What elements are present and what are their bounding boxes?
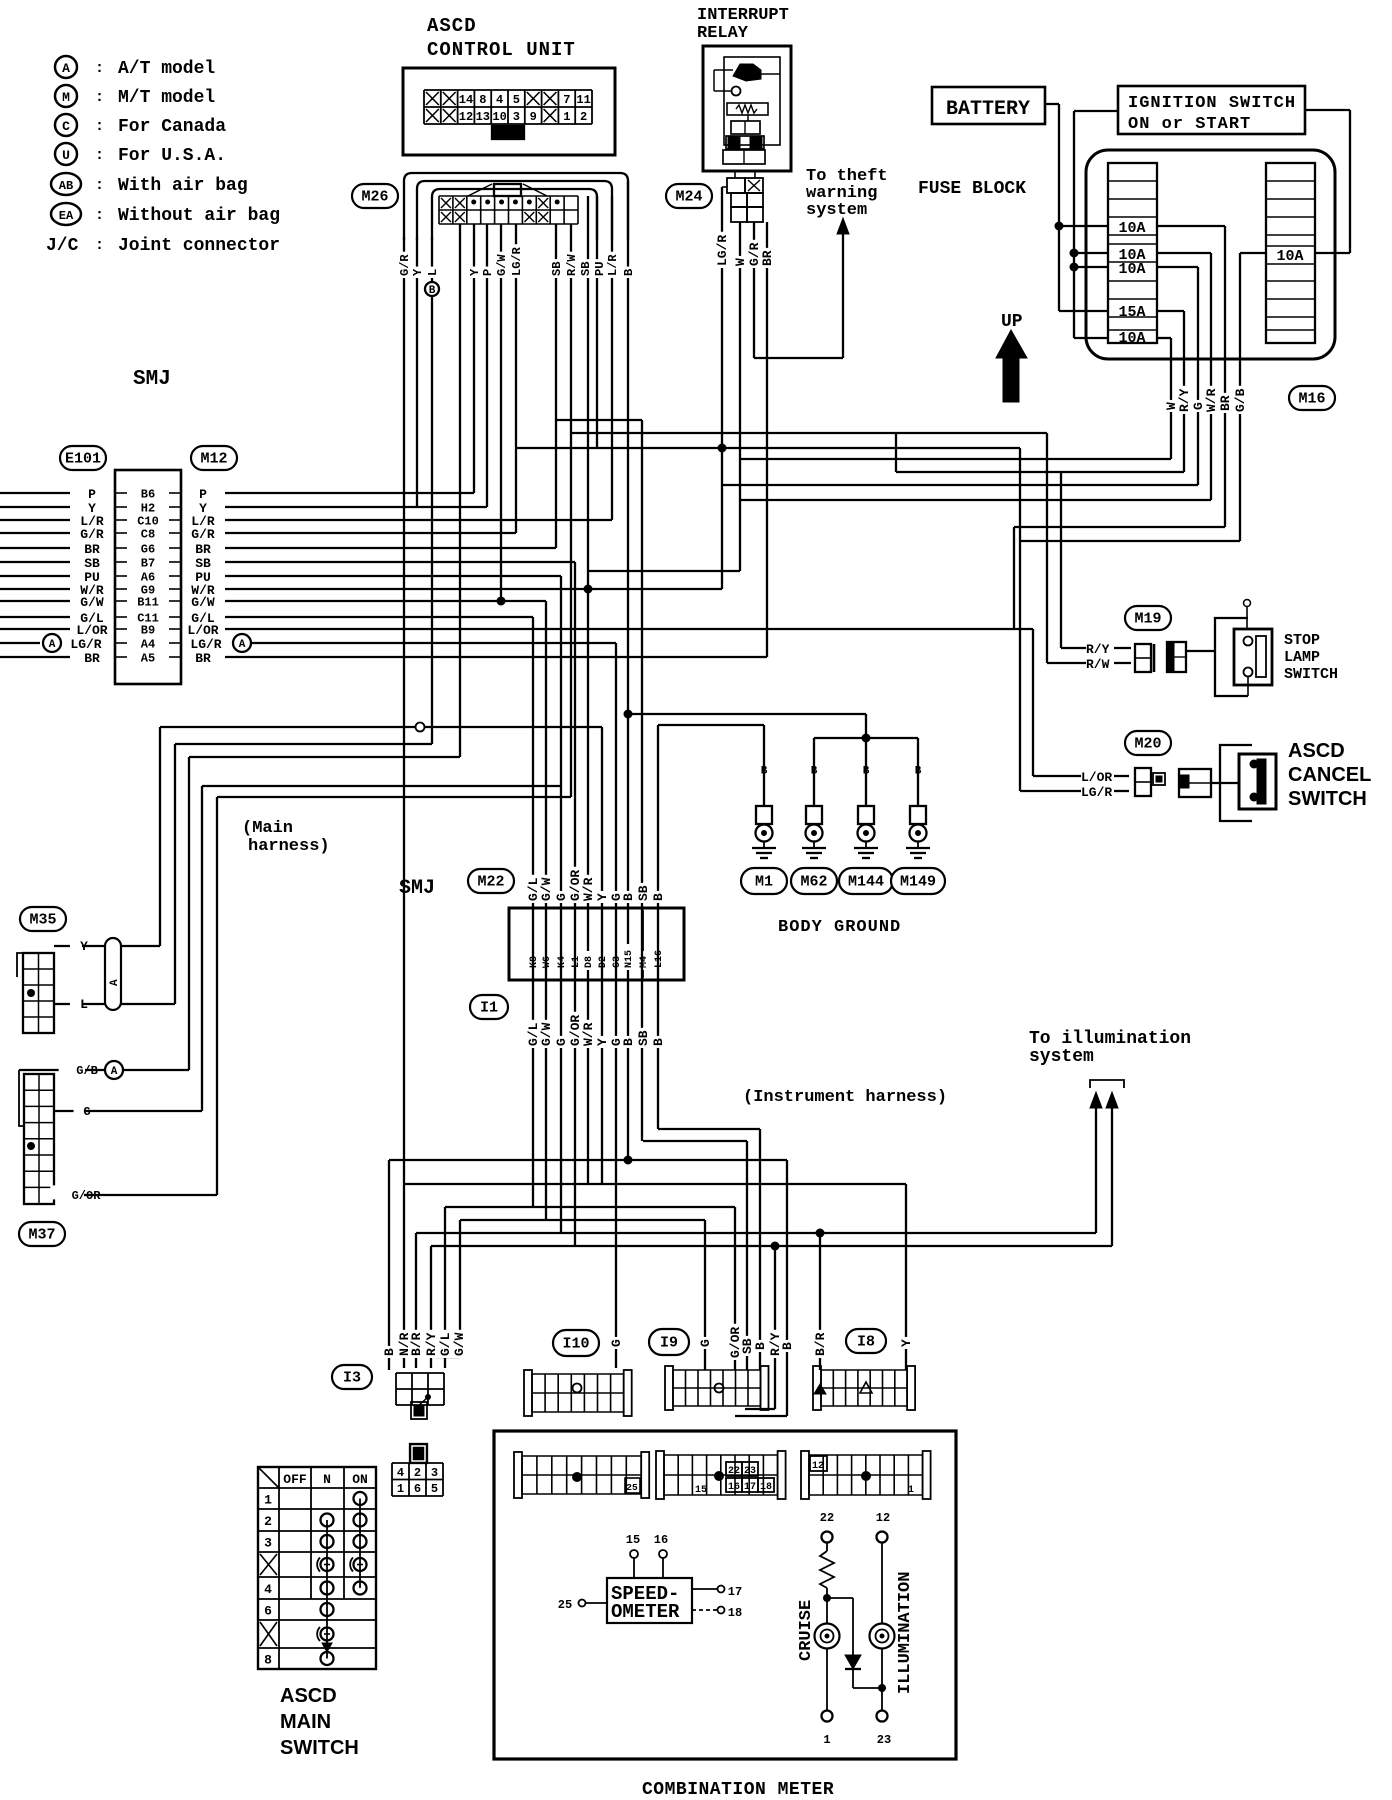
svg-text:E101: E101	[65, 451, 101, 468]
svg-text:M144: M144	[848, 874, 884, 891]
svg-text:Without air bag: Without air bag	[118, 206, 280, 226]
svg-text:W/R: W/R	[581, 1022, 596, 1046]
svg-text:L/OR: L/OR	[1081, 770, 1112, 785]
svg-text:2: 2	[264, 1514, 272, 1529]
M37 G/B row	[19, 1069, 189, 1071]
svg-text:B: B	[863, 766, 870, 778]
svg-text:SWITCH: SWITCH	[1284, 666, 1338, 683]
I3 connector grid	[395, 1373, 397, 1405]
svg-text:harness): harness)	[248, 837, 330, 856]
svg-text:G: G	[698, 1339, 713, 1347]
ground M1	[763, 725, 765, 806]
svg-text:(Instrument harness): (Instrument harness)	[743, 1088, 947, 1107]
svg-text:B11: B11	[137, 596, 159, 610]
svg-text:M149: M149	[900, 874, 936, 891]
svg-text:R/W: R/W	[1086, 657, 1110, 672]
bus wire W/R fuse	[740, 499, 1211, 501]
I3 wire labels	[382, 1346, 396, 1358]
svg-text:P: P	[88, 487, 96, 502]
svg-text:For U.S.A.: For U.S.A.	[118, 146, 226, 166]
svg-text:N: N	[323, 1472, 331, 1487]
svg-text:K4: K4	[557, 956, 568, 968]
ASCD control unit box	[403, 68, 615, 155]
svg-text:3: 3	[431, 1466, 438, 1480]
A/T marker on G/B	[105, 1061, 123, 1079]
wire stub SB row left	[0, 561, 70, 563]
wire G pin3	[560, 576, 562, 1234]
COMBINATION METER box	[494, 1431, 956, 1759]
wire W5 G/OR horizontal	[217, 796, 571, 798]
svg-text::: :	[95, 207, 104, 224]
svg-text:1: 1	[397, 1482, 404, 1496]
wire battery to fuse feed	[1045, 103, 1059, 105]
svg-text:N15: N15	[624, 950, 635, 968]
svg-text:COMBINATION METER: COMBINATION METER	[642, 1780, 834, 1800]
svg-text:BR: BR	[84, 542, 100, 557]
wire W3 vertical to M37 G/B	[188, 757, 190, 1070]
svg-text:BR: BR	[1218, 395, 1233, 411]
svg-text:L16: L16	[654, 950, 665, 968]
ground M144	[865, 738, 867, 806]
wire ignition right feed	[1305, 109, 1350, 111]
wire M26 c2 to M37 G/B	[459, 224, 461, 757]
svg-text:system: system	[1029, 1047, 1094, 1067]
svg-text:I9: I9	[660, 1335, 678, 1352]
wire ground bus	[814, 737, 918, 739]
svg-text:G/W: G/W	[539, 877, 554, 901]
svg-text:SB: SB	[195, 556, 211, 571]
svg-text:1: 1	[823, 1733, 830, 1747]
svg-text:SMJ: SMJ	[133, 368, 171, 391]
SMJ M22 pin wires through box	[532, 910, 534, 978]
svg-text:10A: 10A	[1118, 330, 1145, 347]
svg-text:25: 25	[558, 1598, 572, 1612]
svg-text:L/R: L/R	[606, 254, 620, 276]
wire W4 vertical to M37 G	[201, 786, 203, 1111]
svg-text:EA: EA	[59, 209, 74, 223]
svg-text:10A: 10A	[1118, 261, 1145, 278]
connector ref M19	[1125, 606, 1171, 630]
M37 G row	[54, 1110, 202, 1112]
connector ref E101	[60, 446, 106, 470]
svg-text:SB: SB	[636, 885, 651, 901]
fuse block outline	[1086, 150, 1335, 359]
wire to fuse 15A	[1059, 310, 1108, 312]
svg-text:4: 4	[397, 1466, 404, 1480]
junction R/Y	[771, 1242, 780, 1251]
I9 rear pin hooks	[745, 1408, 775, 1410]
svg-text:W: W	[733, 258, 748, 266]
svg-text:17: 17	[728, 1585, 742, 1599]
wire SB pin9 to I9	[643, 1140, 747, 1142]
svg-text:B9: B9	[141, 624, 155, 638]
svg-text:I1: I1	[480, 1000, 498, 1017]
svg-text:6: 6	[264, 1604, 272, 1619]
wire row BR horizontal	[225, 656, 767, 658]
svg-text:ILLUMINATION: ILLUMINATION	[896, 1572, 915, 1694]
connector I8 grid	[813, 1366, 821, 1410]
wire B/R line to illumination	[416, 1232, 1096, 1234]
svg-text:B: B	[429, 285, 436, 297]
svg-text:B: B	[622, 269, 636, 276]
connector ref I10	[553, 1330, 599, 1356]
connector ref M20	[1125, 731, 1171, 755]
wire row SB horizontal	[225, 561, 575, 563]
wire G/R to theft warning	[754, 357, 843, 359]
wire Y pin6	[601, 727, 603, 1184]
I9/I8 wire labels	[698, 1337, 712, 1349]
wire row W/R horizontal	[225, 588, 722, 590]
svg-text:M4: M4	[639, 956, 650, 968]
wire ignition vertical feed	[1073, 111, 1075, 338]
interrupt relay internals	[724, 57, 780, 145]
grid A marker	[572, 1472, 582, 1482]
wire battery vertical feed	[1058, 104, 1060, 311]
BATTERY box	[932, 87, 1045, 124]
svg-text:Y: Y	[468, 268, 482, 276]
connector ref M22	[468, 869, 514, 893]
svg-text:K8: K8	[529, 956, 540, 968]
wire W3 G/B horizontal	[189, 756, 460, 758]
svg-text:RELAY: RELAY	[697, 24, 749, 43]
wire B line I3 to I9	[389, 1159, 787, 1161]
M35 L row	[54, 1003, 105, 1005]
stop lamp connector symbols	[1135, 644, 1151, 672]
svg-text:M62: M62	[800, 874, 827, 891]
svg-text:ON or START: ON or START	[1128, 115, 1251, 134]
junction battery-10A	[1055, 222, 1064, 231]
bus wire G fuse	[722, 484, 1198, 486]
wire M26 B down to SMJ pin8	[627, 181, 629, 1160]
wire G/OR pin4	[574, 562, 576, 1246]
wire stub PU row left	[0, 575, 70, 577]
svg-text:25: 25	[626, 1482, 638, 1493]
comb meter grid C	[801, 1451, 809, 1499]
svg-text:M24: M24	[675, 189, 702, 206]
svg-text:11: 11	[576, 93, 590, 107]
M35 pin marker	[27, 989, 35, 997]
wire row L/OR horizontal	[225, 628, 1033, 630]
svg-text:FUSE BLOCK: FUSE BLOCK	[918, 179, 1026, 199]
svg-text:LG/R: LG/R	[510, 246, 524, 276]
svg-text:B: B	[753, 1342, 768, 1350]
svg-text:M22: M22	[477, 874, 504, 891]
M37 G/OR row	[54, 1194, 217, 1196]
connector ref I9	[649, 1329, 689, 1355]
svg-text:LG/R: LG/R	[190, 637, 221, 652]
svg-text:G: G	[554, 893, 569, 901]
svg-text:A: A	[49, 639, 56, 651]
svg-text:Joint connector: Joint connector	[118, 236, 280, 256]
svg-text:L: L	[80, 997, 88, 1012]
interrupt relay output wires	[722, 186, 727, 188]
connector I10 grid	[524, 1370, 532, 1416]
wire relay LG/R down to W/R row	[721, 187, 723, 589]
svg-text:9: 9	[530, 110, 537, 124]
svg-text:B: B	[621, 1038, 636, 1046]
riser R/Y bus	[895, 433, 897, 472]
bus wire W fuse to relay W	[740, 458, 1171, 460]
wire G/B vertical	[1239, 253, 1241, 541]
wire W5 vertical to M37 G/OR	[216, 797, 218, 1195]
wire Y from M26 to Y row	[416, 237, 418, 507]
svg-text:system: system	[806, 201, 867, 220]
svg-text:L/OR: L/OR	[76, 623, 107, 638]
wire M26 R/W down (W5 riser)	[570, 224, 572, 797]
wire to fuse 10A #5	[1074, 337, 1108, 339]
wire M26 outline SB down to SMJ pin5 W/R	[587, 196, 589, 1184]
wire W1 into A pill	[121, 945, 160, 947]
svg-text:R/W: R/W	[565, 254, 579, 276]
svg-text:B: B	[621, 893, 636, 901]
comb meter grid A	[514, 1452, 522, 1498]
svg-text:R/Y: R/Y	[1177, 388, 1192, 412]
junction B wire at instrument fan	[624, 1156, 633, 1165]
svg-text:A/T model: A/T model	[118, 59, 215, 79]
ground M149	[917, 738, 919, 806]
svg-text:G/W: G/W	[539, 1022, 554, 1046]
M35 Y row	[54, 945, 105, 947]
wire N/R line I3 to I8 Y	[404, 1183, 906, 1185]
svg-text:B: B	[915, 766, 922, 778]
svg-text:Y: Y	[899, 1339, 914, 1347]
svg-text:18: 18	[760, 1482, 772, 1493]
CRUISE lamp	[815, 1624, 840, 1649]
wire stub G/W row left	[0, 600, 70, 602]
to illumination system arrows	[1095, 1098, 1097, 1233]
svg-text:I3: I3	[343, 1370, 361, 1387]
svg-text:For Canada: For Canada	[118, 117, 226, 137]
M22 top wire labels	[526, 875, 540, 903]
svg-text:CANCEL: CANCEL	[1288, 764, 1371, 786]
svg-text:Y: Y	[595, 893, 610, 901]
svg-text:18: 18	[728, 1606, 742, 1620]
svg-text:15: 15	[695, 1485, 707, 1496]
SMJ E101/M12 connector box	[115, 470, 181, 684]
connector ref I3	[332, 1365, 372, 1389]
svg-text:BR: BR	[195, 651, 211, 666]
junction B/R	[816, 1229, 825, 1238]
svg-text:CONTROL UNIT: CONTROL UNIT	[427, 39, 576, 61]
I3 sub box	[411, 1402, 427, 1419]
junction ign-10A2	[1070, 249, 1079, 258]
ASCD MAIN SWITCH table	[258, 1467, 376, 1669]
M26 housing top tab	[494, 184, 521, 196]
svg-text:With air bag: With air bag	[118, 176, 248, 196]
wire stub G/R row left	[0, 532, 70, 534]
svg-text:I8: I8	[857, 1334, 875, 1351]
svg-text:CRUISE: CRUISE	[797, 1600, 816, 1661]
svg-text:M35: M35	[29, 912, 56, 929]
M26 pin block	[438, 196, 440, 224]
wire to fuse 10A #3	[1074, 266, 1108, 268]
svg-text:G/B: G/B	[1233, 388, 1248, 412]
connector ref M35	[20, 907, 66, 931]
svg-text:M: M	[62, 90, 70, 105]
svg-text::: :	[95, 147, 104, 164]
wire to fuse 10A #2	[1074, 252, 1108, 254]
svg-text:BODY GROUND: BODY GROUND	[778, 918, 901, 937]
wire B pin10 to I9	[658, 1128, 760, 1130]
wire row Y horizontal	[225, 506, 487, 508]
svg-text:UP: UP	[1001, 312, 1023, 332]
ASCD control unit pin grid	[423, 90, 425, 124]
wire G/L line	[445, 1206, 735, 1208]
svg-text:2: 2	[580, 110, 587, 124]
wire stub LG/R left	[0, 642, 40, 644]
wire L from M26 to M35	[431, 237, 433, 744]
bus wire R/Y fuse	[896, 471, 1184, 473]
wire connector to cancel switch	[1211, 782, 1239, 784]
svg-text:BR: BR	[84, 651, 100, 666]
connector M26 housing	[404, 173, 628, 240]
svg-text:L1: L1	[571, 956, 582, 968]
svg-text:5: 5	[431, 1482, 438, 1496]
wire stub L/R row left	[0, 519, 70, 521]
svg-text:D8: D8	[584, 956, 595, 968]
M37 connector grid	[24, 1074, 54, 1204]
wire ignition to fuse feed	[1074, 110, 1118, 112]
wire stub BR row left	[0, 547, 70, 549]
svg-text:OFF: OFF	[283, 1472, 307, 1487]
speedometer pin 17	[692, 1588, 717, 1590]
wire to fuse 10A #1	[1059, 225, 1108, 227]
svg-text:12: 12	[459, 110, 473, 124]
wire row G/W horizontal	[225, 600, 546, 602]
wire fuse5 out W	[1157, 337, 1171, 339]
junction W/R row	[584, 585, 593, 594]
wire M26 L/R to L/R row	[611, 196, 613, 520]
svg-text:M20: M20	[1134, 736, 1161, 753]
wire W vertical	[1170, 338, 1172, 459]
SPEEDOMETER box	[607, 1578, 692, 1623]
svg-text:10A: 10A	[1118, 220, 1145, 237]
wire G vertical	[1197, 267, 1199, 485]
svg-text:A4: A4	[141, 638, 155, 652]
svg-text:G3: G3	[612, 956, 623, 968]
grid C marker	[861, 1471, 871, 1481]
A/T marker right	[233, 634, 251, 652]
riser to stop lamp R/W	[1046, 433, 1048, 663]
svg-text:L/OR: L/OR	[187, 623, 218, 638]
connector ref M37	[19, 1222, 65, 1246]
svg-text:Y: Y	[411, 268, 425, 276]
wire fuse2 out W/R	[1157, 252, 1211, 254]
svg-text:LG/R: LG/R	[715, 235, 730, 266]
svg-text:To illumination: To illumination	[1029, 1029, 1191, 1049]
riser L/OR row to M20	[1032, 629, 1034, 776]
ASCD control unit connector tab	[492, 126, 524, 139]
interrupt relay wire labels	[715, 232, 729, 268]
wire B to ground bus	[628, 713, 866, 715]
svg-text:G/R: G/R	[80, 527, 104, 542]
svg-text:PU: PU	[593, 262, 607, 276]
svg-text:B/R: B/R	[409, 1332, 424, 1356]
wire G/R from M26 down to I3 N/R	[403, 237, 405, 1368]
svg-text:10: 10	[492, 110, 506, 124]
wire M26 SB to BR row	[555, 224, 557, 548]
svg-text:G/B: G/B	[76, 1064, 98, 1078]
svg-text::: :	[95, 60, 104, 77]
svg-text:OMETER: OMETER	[611, 1601, 680, 1623]
svg-text:14: 14	[459, 93, 473, 107]
svg-text:22: 22	[728, 1466, 740, 1477]
I3 pin marker	[425, 1394, 431, 1400]
switch contact circles ON column	[359, 1499, 361, 1589]
svg-text:M26: M26	[361, 189, 388, 206]
svg-text:G/W: G/W	[80, 595, 104, 610]
svg-text:SB: SB	[550, 262, 564, 276]
wire row G/L horizontal	[225, 616, 533, 618]
svg-text:R/Y: R/Y	[424, 1332, 439, 1356]
SMJ M22/I1 box	[509, 908, 684, 980]
wire L/OR to cancel switch	[1033, 775, 1081, 777]
svg-text:6: 6	[414, 1482, 421, 1496]
svg-text:G/W: G/W	[452, 1332, 467, 1356]
svg-text:LAMP: LAMP	[1284, 649, 1320, 666]
connector ref I1	[470, 995, 508, 1019]
svg-text:STOP: STOP	[1284, 632, 1320, 649]
wire row PU horizontal	[225, 575, 561, 577]
svg-text:L: L	[426, 269, 440, 276]
svg-text:16: 16	[728, 1482, 740, 1493]
svg-text:A6: A6	[141, 571, 155, 585]
wire W2 vertical to M35 L	[174, 744, 176, 1004]
wire fuse1 out BR	[1157, 225, 1225, 227]
svg-text:J/C: J/C	[46, 236, 79, 256]
svg-text:B: B	[651, 1038, 666, 1046]
svg-text:B: B	[811, 766, 818, 778]
grid B marker	[714, 1471, 724, 1481]
svg-text:R/Y: R/Y	[1086, 642, 1110, 657]
junction ign-10A3	[1070, 263, 1079, 272]
svg-text:SWITCH: SWITCH	[280, 1737, 359, 1759]
svg-text:2: 2	[414, 1466, 421, 1480]
junction cruise/diode	[823, 1594, 831, 1602]
junction ground bus	[862, 734, 871, 743]
junction diode/illum	[878, 1684, 886, 1692]
svg-text:G/W: G/W	[495, 254, 509, 276]
wire B pin10	[657, 725, 659, 1129]
riser G/B to M20 LG/R	[1019, 448, 1021, 791]
svg-text:17: 17	[744, 1482, 756, 1493]
wire W2 into A pill	[121, 1003, 175, 1005]
svg-text::: :	[95, 89, 104, 106]
svg-text:13: 13	[476, 110, 490, 124]
svg-text:B/R: B/R	[813, 1332, 828, 1356]
svg-text:C8: C8	[141, 528, 155, 542]
connector ref I8	[846, 1329, 886, 1353]
svg-text:G: G	[83, 1105, 90, 1119]
wire relay BR down to BR row	[766, 222, 768, 657]
wire M26 P to Y row	[486, 224, 488, 507]
legend top-left	[55, 56, 77, 78]
wire W1 vertical to M35 Y	[159, 727, 161, 946]
svg-text:G/L: G/L	[438, 1332, 453, 1356]
svg-text:B: B	[780, 1342, 795, 1350]
svg-text:1: 1	[908, 1485, 914, 1496]
wire W1 Y-M35 horizontal	[160, 726, 602, 728]
ground M62	[813, 738, 815, 806]
svg-text:B: B	[651, 893, 666, 901]
svg-text:G/OR: G/OR	[72, 1189, 102, 1203]
wire G/W line	[460, 1219, 705, 1221]
wire M26 G/W to G/W row junction	[500, 224, 502, 601]
svg-text::: :	[95, 118, 104, 135]
connector ref M24	[666, 184, 712, 208]
svg-text:IGNITION SWITCH: IGNITION SWITCH	[1128, 94, 1296, 113]
wire into right 10A fuse	[1315, 252, 1350, 254]
